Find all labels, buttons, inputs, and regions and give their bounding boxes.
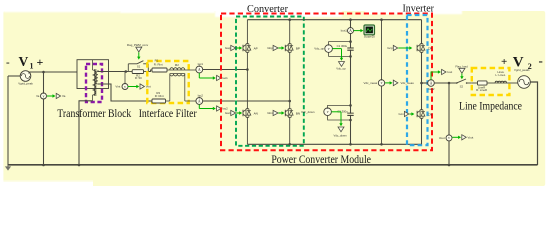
svg-text:Va: Va <box>36 94 40 98</box>
igbt CP <box>415 44 432 53</box>
svg-text:Iac1: Iac1 <box>222 76 228 80</box>
wire phase A <box>203 69 248 71</box>
svg-text:Flag_load: Flag_load <box>455 64 468 68</box>
svg-text:Gbn: Gbn <box>267 111 273 115</box>
wire M2 right leg <box>184 74 186 101</box>
svg-text:v: v <box>43 94 45 98</box>
transformer secondary winding <box>96 70 98 84</box>
capacitor C1 <box>347 48 353 50</box>
wire M2-ammeter <box>185 69 196 71</box>
resistor R1 <box>152 59 167 72</box>
leg A wire <box>246 20 248 145</box>
goto tag Vdc_up <box>332 49 346 71</box>
svg-text:Interface Filter: Interface Filter <box>139 106 197 120</box>
svg-text:CP: CP <box>428 46 432 50</box>
label Interface Filter <box>139 106 197 120</box>
from tag Flag_load <box>455 64 468 79</box>
svg-text:v: v <box>327 110 329 114</box>
svg-text:Gap: Gap <box>225 46 231 50</box>
label V2 <box>501 53 543 71</box>
svg-text:R: Rint: R: Rint <box>155 94 164 98</box>
wire Vint stub <box>124 72 126 84</box>
inductor LineL <box>487 70 507 83</box>
purple dashed rect Transformer Block <box>86 64 102 102</box>
svg-text:v: v <box>381 81 383 85</box>
wire Vdc_down tap bottom <box>328 116 351 120</box>
inverter leg wire <box>421 20 423 145</box>
wire M2leg-ammeter2 <box>185 100 196 102</box>
wire secondary bottom <box>98 84 152 101</box>
svg-text:-: - <box>539 53 543 68</box>
blue dashed rect Inverter <box>407 15 428 145</box>
svg-text:Vout: Vout <box>439 136 445 140</box>
node junction V1-Va <box>42 71 45 74</box>
label Vint <box>115 85 120 89</box>
top DC rail <box>247 19 421 21</box>
svg-text:A: A <box>198 68 201 72</box>
svg-text:S1: S1 <box>137 65 141 69</box>
label C1 <box>337 44 348 48</box>
igbt CN <box>415 110 432 119</box>
yellow dashed rect Interface Filter <box>147 61 188 103</box>
goto tag Vdc_meas <box>385 80 414 86</box>
svg-text:Vdc_up: Vdc_up <box>314 47 324 51</box>
voltmeter Vdc_down <box>324 107 332 115</box>
node junction Vout tap <box>448 82 451 85</box>
igbt AP <box>241 44 258 53</box>
svg-text:Vdc_down: Vdc_down <box>333 134 347 138</box>
svg-text:A: A <box>198 99 201 103</box>
node junction inverter mid <box>420 82 423 85</box>
igbt AN <box>241 109 258 118</box>
svg-text:Flag_PWM_conv: Flag_PWM_conv <box>127 43 149 47</box>
transformer primary winding <box>93 60 96 101</box>
switch S1 <box>128 61 148 72</box>
label C2 <box>337 109 348 113</box>
svg-text:L: LineL: L: LineL <box>495 73 505 77</box>
wire R1-M2 <box>167 69 170 71</box>
svg-text:R: LineR: R: LineR <box>476 88 487 92</box>
resistor R2 <box>128 70 148 74</box>
label Vdc_down meter <box>301 110 315 114</box>
wire M2 left leg <box>169 74 171 101</box>
wire inverter out <box>422 82 428 84</box>
white pocket top-left <box>4 10 120 12</box>
ground <box>5 165 11 171</box>
scope Scope20 <box>354 25 376 39</box>
svg-text:Va: Va <box>62 94 66 98</box>
capacitor C2 <box>347 113 353 115</box>
ammeter Iac2 <box>196 97 203 104</box>
wire V1 left <box>8 75 20 77</box>
svg-text:Scope20: Scope20 <box>364 35 375 39</box>
wire Vout vertical <box>448 83 450 165</box>
wire LineL to V2 <box>507 82 519 84</box>
goto tag Iac1 <box>199 73 228 81</box>
transformer subsystem box <box>77 60 109 89</box>
node junction rail C <box>349 18 352 145</box>
AC source Vgrid_peak1 <box>518 76 531 89</box>
ammeter Iac1 <box>196 66 203 73</box>
node junction phase A <box>246 68 249 71</box>
label Converter <box>247 3 288 15</box>
svg-text:v: v <box>124 85 126 89</box>
voltmeter Va <box>41 92 47 99</box>
transformer core <box>95 69 96 96</box>
svg-text:Iout2: Iout2 <box>428 87 435 91</box>
svg-text:V: V <box>513 55 524 71</box>
wire Vdc_down tap top <box>328 105 351 108</box>
svg-text:Vdc_meas: Vdc_meas <box>364 81 378 85</box>
label Vdc_meas meter <box>364 81 378 85</box>
node junction bus Va <box>42 164 45 167</box>
from tag gate CP <box>387 45 412 50</box>
svg-text:-: - <box>6 57 10 69</box>
inductor M2 top winding <box>170 63 185 70</box>
inductor M2 bottom winding <box>170 74 185 76</box>
svg-text:v: v <box>328 47 330 51</box>
svg-text:Gbp: Gbp <box>267 46 273 50</box>
svg-text:A: A <box>349 29 352 33</box>
svg-text:Gan: Gan <box>225 111 231 115</box>
label Transformer Block <box>57 106 131 120</box>
from tag Flag_PWM_conv <box>127 43 149 59</box>
white pocket converter title <box>215 10 342 17</box>
from tag gate AP <box>225 45 242 50</box>
wire Va vertical <box>43 72 45 165</box>
from tag gate CN <box>398 111 414 116</box>
svg-text:Gcp: Gcp <box>387 46 393 50</box>
svg-text:Gcn: Gcn <box>398 112 404 116</box>
svg-text:Power Converter Module: Power Converter Module <box>271 152 371 166</box>
svg-text:Iout: Iout <box>447 70 452 74</box>
voltmeter Vout <box>446 134 452 141</box>
svg-text:CN: CN <box>428 112 432 116</box>
label V1 <box>6 54 44 71</box>
goto tag Vint <box>128 84 151 89</box>
svg-text:Vout: Vout <box>468 135 474 139</box>
red dashed rect Power Converter Module <box>221 14 432 151</box>
white pocket above converter <box>120 10 215 13</box>
svg-text:+: + <box>37 55 44 69</box>
wire V1 left down <box>7 76 9 165</box>
svg-text:BP: BP <box>296 46 300 50</box>
svg-text:Iac2: Iac2 <box>198 94 204 98</box>
svg-text:Vdc_up: Vdc_up <box>336 67 346 71</box>
goto tag Vout <box>452 135 473 140</box>
goto tag Iout <box>431 69 452 79</box>
goto tag Vdc_down <box>331 112 347 138</box>
wire V2 right <box>530 82 537 165</box>
goto tag Va <box>47 93 66 98</box>
white pocket inverter title <box>365 10 462 14</box>
label Line Impedance <box>459 98 522 112</box>
svg-text:R: 50: R: 50 <box>135 76 142 80</box>
label Inverter <box>402 3 434 15</box>
voltmeter Vint <box>122 83 128 90</box>
label Power Converter Module <box>271 152 371 166</box>
label R2 <box>135 73 142 80</box>
label Va <box>36 94 40 98</box>
label Vgrid_peak <box>18 81 33 85</box>
wire Vdc_up tap bottom <box>329 52 351 56</box>
canvas background <box>3 11 545 186</box>
svg-text:Transformer Block: Transformer Block <box>57 106 131 120</box>
svg-text:Converter: Converter <box>247 3 288 15</box>
node junction rail B <box>288 18 291 145</box>
svg-text:R: Rint: R: Rint <box>154 63 163 67</box>
voltmeter Vdc_meas <box>378 79 384 86</box>
svg-text:C1 300u: C1 300u <box>337 44 348 48</box>
svg-text:M2: M2 <box>175 63 179 67</box>
igbt BN <box>283 109 300 118</box>
node junction Vdc_down taps <box>349 104 352 121</box>
label Iout1 <box>341 29 348 33</box>
node junction Vdc_up taps <box>349 40 352 57</box>
wire primary bottom <box>79 101 93 165</box>
svg-text:Iac2: Iac2 <box>222 107 228 111</box>
wire R3-M2leg <box>166 100 170 102</box>
from tag gate BN <box>267 110 284 115</box>
wire out to S2 <box>434 82 456 84</box>
svg-text:Vgrid_peak: Vgrid_peak <box>18 81 33 85</box>
DC link center wire <box>350 20 352 145</box>
from tag gate BP <box>267 45 284 50</box>
svg-text:v: v <box>448 136 450 140</box>
svg-text:Iac1: Iac1 <box>198 62 204 66</box>
label Vdc_up meter <box>314 47 324 51</box>
node junction bus transformer <box>78 164 81 167</box>
resistor R3 <box>152 91 166 103</box>
label Vgrid_peak1 <box>514 68 530 72</box>
ammeter Iout <box>428 79 435 86</box>
wire S1R2 exit <box>148 70 152 72</box>
bottom DC rail <box>247 143 421 145</box>
svg-text:Vdc_down: Vdc_down <box>301 110 315 114</box>
resistor LineR <box>472 81 487 92</box>
node junction phase B <box>288 100 291 103</box>
node junction Vdc_meas rail <box>380 18 383 145</box>
white fade bottom-left <box>0 180 93 186</box>
wire Vdc_up tap top <box>329 42 351 45</box>
label Iac2 <box>198 94 204 98</box>
AC source Vgrid_peak <box>20 71 31 82</box>
svg-text:AN: AN <box>254 111 258 115</box>
green dashed rect Converter <box>236 17 304 146</box>
wire V1 right <box>29 72 77 73</box>
bottom bus wire <box>8 164 538 166</box>
svg-text:BN: BN <box>296 111 300 115</box>
leg B wire <box>289 20 291 145</box>
igbt BP <box>283 44 300 53</box>
wire secondary top <box>98 70 128 73</box>
svg-text:A: A <box>430 81 433 85</box>
wire phase B <box>203 100 290 102</box>
label Iac1 <box>198 62 204 66</box>
svg-text:+: + <box>501 56 507 68</box>
yellow dashed rect Line Impedance <box>472 68 510 95</box>
node junction bus Vout <box>448 164 451 167</box>
label Vout meter <box>439 136 445 140</box>
goto tag Iac2 <box>199 105 228 112</box>
svg-text:V: V <box>19 54 29 69</box>
wire Vdc_meas stub <box>381 20 383 145</box>
switch S2 <box>456 79 472 88</box>
svg-text:AP: AP <box>254 46 258 50</box>
svg-text:1: 1 <box>30 62 34 71</box>
svg-text:Iout1: Iout1 <box>341 29 348 33</box>
svg-text:Line Impedance: Line Impedance <box>459 98 522 112</box>
svg-text:S2: S2 <box>460 84 464 88</box>
svg-text:Inverter: Inverter <box>402 3 434 15</box>
from tag gate AN <box>225 110 242 115</box>
label Iout meter <box>428 87 435 91</box>
svg-text:2: 2 <box>528 62 532 71</box>
ammeter Iout1 <box>348 27 354 34</box>
svg-text:Vint: Vint <box>115 85 120 89</box>
voltmeter Vdc_up <box>325 44 333 52</box>
